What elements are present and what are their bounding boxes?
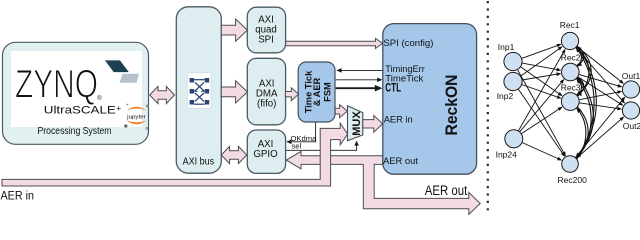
jupyter logo badge	[124, 104, 148, 131]
MUX block	[348, 106, 363, 141]
arrow AXI bus to AXI quad SPI	[221, 19, 247, 41]
dotted separator line	[487, 1, 489, 215]
arrow MUX to ReckON AER in	[363, 115, 383, 132]
svg-text:MUX: MUX	[351, 111, 363, 136]
svg-text:FSM: FSM	[322, 82, 332, 102]
svg-text:UltraSCALE: UltraSCALE	[44, 105, 116, 117]
svg-text:ReckON: ReckON	[442, 75, 461, 136]
svg-text:SPI (config): SPI (config)	[383, 37, 433, 48]
arrow FSM to MUX	[335, 105, 347, 118]
svg-text:& AER: & AER	[312, 77, 322, 106]
wire: OKdma (FSM to AXI GPIO)	[291, 123, 316, 142]
zynq logo white panel	[11, 51, 142, 127]
wire: AER out route (ReckON to GPIO, down and out right with arrowhead)	[286, 151, 480, 214]
recurrent braid arcs	[576, 46, 596, 159]
svg-text:Rec1: Rec1	[560, 20, 580, 30]
svg-text:Rec3: Rec3	[561, 83, 581, 93]
svg-text:jupyter: jupyter	[126, 114, 146, 120]
wire: AER in route (external band up into MUX)	[2, 123, 348, 186]
wire: TimingErr (ReckON to FSM)	[341, 69, 383, 71]
svg-text:CTL: CTL	[385, 83, 401, 95]
svg-text:®: ®	[146, 126, 149, 131]
wire: SPI config band (AXI quad SPI to ReckON)	[286, 38, 383, 48]
bidirectional arrow AXI bus to AXI GPIO	[221, 146, 246, 163]
svg-text:Processing System: Processing System	[38, 126, 112, 137]
AXI GPIO block	[247, 130, 285, 173]
neuron Rec2	[562, 63, 580, 81]
bidirectional arrow ZYNQ to AXI bus	[150, 86, 175, 103]
arrow AXI DMA to FSM	[285, 88, 298, 101]
svg-text:AER in: AER in	[384, 114, 413, 125]
svg-text:Inp2: Inp2	[497, 91, 514, 101]
wire: TimeTick (FSM to ReckON)	[336, 79, 379, 81]
svg-text:AER out: AER out	[383, 156, 418, 167]
svg-text:AER out: AER out	[425, 183, 468, 198]
xilinx emblem gray parallelogram	[120, 74, 140, 83]
AXI DMA block	[247, 58, 285, 125]
svg-text:(fifo): (fifo)	[257, 98, 276, 109]
svg-text:Out1: Out1	[622, 71, 640, 81]
svg-text:Out2: Out2	[623, 121, 640, 131]
svg-text:GPIO: GPIO	[253, 149, 278, 160]
neuron Inp24	[505, 130, 523, 148]
svg-text:AXI bus: AXI bus	[183, 156, 215, 167]
svg-text:sel: sel	[292, 142, 302, 151]
neuron Out2	[622, 102, 639, 119]
recurrent-to-output synapse lines	[575, 46, 625, 158]
ReckON block	[383, 24, 477, 175]
neuron Out1	[622, 81, 639, 98]
neuron Inp2	[504, 72, 522, 90]
neuron Rec200	[562, 156, 579, 173]
svg-text:®: ®	[97, 95, 102, 102]
neuron Rec1	[561, 32, 578, 49]
input-to-recurrent synapse lines	[517, 44, 565, 160]
svg-text:+: +	[116, 103, 121, 113]
svg-text:SPI: SPI	[258, 34, 274, 45]
zynq processing system block	[3, 42, 149, 144]
svg-text:ZYNQ: ZYNQ	[15, 63, 98, 107]
Time Tick & AER FSM block	[298, 62, 335, 122]
AXI interconnect icon	[188, 73, 212, 109]
xilinx emblem dark parallelogram	[105, 60, 129, 72]
neuron Inp1	[504, 52, 522, 70]
svg-text:Rec2: Rec2	[561, 53, 581, 63]
AXI bus block	[176, 7, 221, 173]
svg-text:Rec200: Rec200	[558, 175, 588, 185]
neuron Rec3	[561, 93, 579, 111]
arrow AXI bus to AXI DMA	[221, 81, 247, 103]
svg-text:Inp1: Inp1	[498, 42, 515, 52]
wire: CTL (FSM to ReckON, thick)	[336, 87, 375, 89]
AXI quad SPI block	[247, 7, 285, 53]
wire: sel (AXI GPIO to MUX select)	[286, 144, 357, 150]
svg-text:Inp24: Inp24	[496, 150, 518, 160]
svg-text:AER in: AER in	[1, 189, 35, 203]
